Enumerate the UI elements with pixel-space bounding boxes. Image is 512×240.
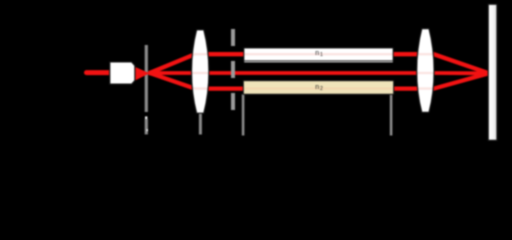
slab right edge line below [390, 94, 393, 135]
lens1 axis line below [199, 111, 202, 135]
slab n1 fill [244, 48, 393, 61]
pinhole plane vertical line upper [145, 45, 148, 112]
lens 2 outline [417, 29, 434, 113]
slab left edge line below [242, 94, 245, 135]
slab n2 fill [243, 81, 393, 95]
pinhole plane vertical line lower [145, 119, 148, 134]
lens 1 fill [192, 30, 209, 113]
converging cone from objective tip [135, 67, 149, 80]
pinhole line white tick [145, 116, 147, 119]
screen [488, 4, 497, 140]
svg-text:1: 1 [320, 52, 323, 58]
slab n1 outline [244, 48, 393, 61]
svg-text:n: n [315, 84, 319, 91]
lens 2 fill [417, 29, 434, 113]
laser input beam [87, 70, 113, 75]
slab n2 outline [243, 81, 393, 95]
svg-text:n: n [315, 50, 319, 57]
slab n1 white underline [244, 61, 393, 62]
fourier plane dashed line [231, 29, 235, 110]
middle ray [149, 71, 490, 75]
lens 1 outline [192, 30, 209, 113]
faint ray through beige slab [243, 87, 393, 89]
svg-text:2: 2 [320, 86, 323, 92]
top ray [149, 54, 490, 73]
microscope objective body [110, 62, 135, 84]
faint rays through white elements [149, 54, 488, 88]
bottom ray [149, 73, 490, 89]
pinhole line white dot [147, 129, 149, 131]
